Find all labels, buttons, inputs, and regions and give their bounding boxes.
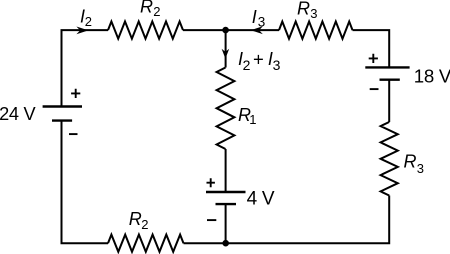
minus sign 4V (207, 219, 216, 221)
wire (353, 30, 390, 67)
svg-text:18 V: 18 V (414, 66, 450, 87)
svg-text:R: R (129, 209, 142, 229)
wire (184, 242, 226, 244)
svg-text:3: 3 (273, 57, 281, 73)
wire (62, 121, 109, 244)
svg-text:I: I (252, 7, 257, 27)
minus sign 18V (370, 88, 379, 90)
battery U2 18V (365, 67, 409, 79)
svg-text:+: + (253, 48, 264, 69)
resistor R2 (108, 235, 184, 252)
svg-text:3: 3 (417, 161, 424, 176)
svg-text:4 V: 4 V (247, 189, 275, 210)
resistor R3 (381, 122, 398, 196)
plus sign 4V (207, 178, 215, 187)
svg-text:2: 2 (141, 217, 148, 232)
resistor R1 (217, 68, 235, 150)
svg-text:R: R (140, 0, 153, 16)
wire (388, 80, 390, 122)
svg-text:3: 3 (310, 6, 317, 21)
arrow I2+I3 (222, 49, 230, 59)
svg-text:2: 2 (243, 57, 251, 73)
wire (225, 149, 227, 192)
svg-text:1: 1 (249, 112, 256, 127)
arrow I3 (251, 26, 263, 34)
svg-text:R: R (297, 0, 310, 18)
wire (62, 30, 109, 106)
plus sign 18V (369, 54, 378, 63)
svg-text:24 V: 24 V (0, 104, 36, 124)
wire (225, 30, 227, 67)
svg-text:R: R (404, 151, 417, 171)
node top center junction (222, 27, 229, 34)
node bottom center junction (222, 240, 229, 247)
minus sign 24V (69, 133, 78, 135)
svg-text:2: 2 (153, 4, 160, 19)
arrow I2 (76, 27, 88, 35)
resistor R2 (108, 22, 183, 39)
wire (225, 204, 227, 243)
wire (226, 196, 390, 244)
wire (183, 29, 279, 31)
svg-text:3: 3 (258, 15, 266, 30)
svg-text:2: 2 (85, 14, 92, 29)
battery U3 4V (206, 192, 246, 204)
battery U1 24V (43, 107, 82, 121)
resistor R3 (279, 22, 353, 39)
plus sign 24V (71, 89, 80, 98)
